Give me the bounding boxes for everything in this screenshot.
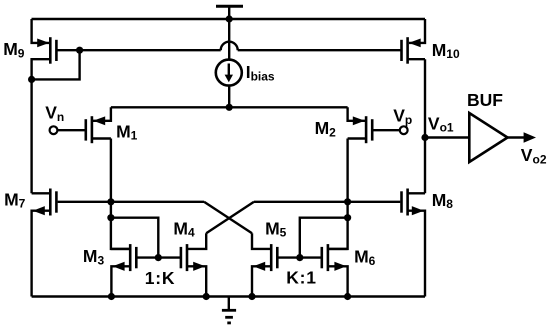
svg-text:Vo1: Vo1: [428, 113, 454, 134]
node: left bus / mirror gate tie: [107, 214, 114, 221]
VDD supply T-bar: [216, 6, 243, 19]
svg-text:M4: M4: [173, 218, 195, 239]
wire: right mirror gate tie: [300, 218, 348, 258]
wire: Ibias drop from rail: [228, 19, 230, 61]
svg-text:Vo2: Vo2: [521, 145, 547, 166]
node: M3 source: [108, 293, 115, 300]
svg-text:M8: M8: [432, 190, 454, 211]
wire: right bus (M10 drain to M8 drain, Vo1): [424, 59, 426, 193]
svg-text:M6: M6: [354, 247, 376, 268]
wire: M9-M10 gate line with hop over Ibias: [56, 42, 401, 51]
wire: left mirror gate tie: [111, 218, 158, 258]
node: M9 gate junction: [76, 47, 83, 54]
wire: tail rail (M1/M2 sources): [111, 106, 348, 108]
transistor M2 (PMOS input, Vp): [348, 107, 401, 143]
top supply rail: [32, 18, 426, 20]
transistor M7 (NMOS cascode left): [32, 189, 57, 297]
transistor M8 (NMOS cascode right): [402, 189, 426, 297]
transistor M5 (NMOS mirror K): [252, 233, 300, 296]
wire: bottom rail: [32, 295, 425, 297]
svg-text:M2: M2: [315, 118, 337, 139]
svg-text:1:K: 1:K: [145, 268, 176, 288]
current source Ibias: [216, 60, 242, 86]
wire: Ibias to tail node: [228, 86, 230, 108]
node: M5 source: [248, 293, 255, 300]
transistor M1 (PMOS input, Vn): [57, 107, 111, 143]
ground: [222, 297, 236, 323]
terminal Vp: [400, 126, 408, 134]
node: right bus / mirror gate tie: [344, 214, 351, 221]
wire: diagonal cross to M5: [204, 202, 252, 233]
svg-text:M9: M9: [3, 39, 25, 60]
node: tail junction: [226, 104, 233, 111]
transistor M6 (NMOS mirror 1): [300, 244, 348, 296]
svg-text:BUF: BUF: [467, 90, 503, 110]
node: left bus / M7 gate: [107, 198, 114, 205]
wire: buffer output with arrow: [508, 132, 537, 142]
transistor M3 (NMOS mirror 1): [111, 244, 158, 296]
wire: inner right bus (M2 drain to M6 drain): [328, 139, 348, 249]
transistor M9 (diode-connected PMOS): [32, 19, 57, 79]
node: right bus / M8 gate: [344, 198, 351, 205]
svg-text:Vp: Vp: [393, 106, 412, 127]
wire: M9 gate-drain tie: [32, 50, 80, 79]
node: Vo1: [421, 134, 428, 141]
transistor M10 (PMOS mirror output): [402, 19, 426, 64]
svg-text:Vn: Vn: [45, 103, 64, 124]
wire: M8 gate line: [254, 201, 400, 203]
wire: inner left bus (M1 drain to M3 drain): [111, 139, 130, 249]
node: rail/Ibias junction: [226, 15, 233, 22]
node: M6 source: [344, 293, 351, 300]
node: M4 source: [203, 293, 210, 300]
node: M3/M4 gates: [155, 254, 162, 261]
op-amp buffer BUF: [469, 113, 507, 162]
wire: diagonal cross to M4: [206, 202, 254, 233]
node: M9 drain junction: [28, 76, 35, 83]
svg-text:K:1: K:1: [286, 268, 317, 288]
svg-text:M5: M5: [265, 218, 287, 239]
wire: Vo1 to buffer: [425, 136, 469, 138]
svg-text:M1: M1: [116, 121, 138, 142]
terminal Vn: [50, 126, 58, 134]
svg-text:M7: M7: [4, 189, 26, 210]
node: M5/M6 gates: [296, 254, 303, 261]
svg-text:M3: M3: [83, 246, 105, 267]
wire: left bus (M9 drain to M7 drain): [30, 79, 32, 193]
svg-text:Ibias: Ibias: [246, 62, 275, 83]
svg-text:M10: M10: [432, 40, 460, 61]
wire: M7 gate line: [58, 201, 204, 203]
transistor M4 (NMOS mirror K): [158, 233, 206, 296]
